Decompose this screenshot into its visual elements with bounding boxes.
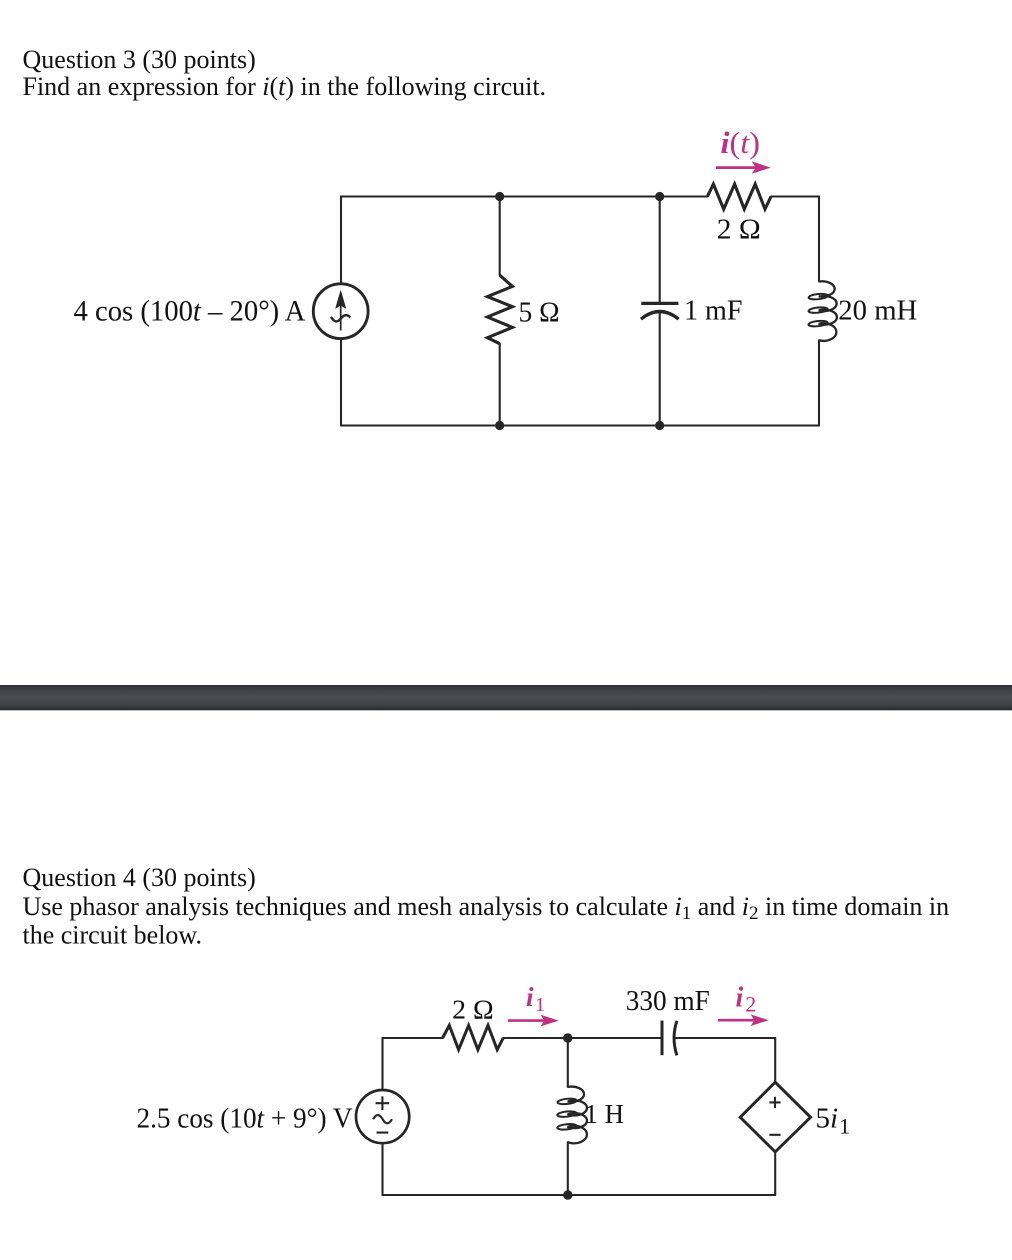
svg-text:1 mF: 1 mF bbox=[684, 296, 743, 327]
page separator bar bbox=[0, 685, 1012, 710]
current source IS1 4cos(100t-20) bbox=[313, 284, 368, 339]
arrow i(t) bbox=[716, 161, 771, 173]
wire top rail right segment bbox=[771, 195, 819, 197]
svg-text:the circuit below.: the circuit below. bbox=[23, 921, 203, 950]
CIRCUIT2 bbox=[383, 1038, 776, 1195]
wire capacitor branch leads bbox=[659, 197, 661, 426]
wire bottom rail bbox=[383, 1143, 776, 1195]
inductor L2 1H coil bbox=[557, 1087, 587, 1144]
CIRCUIT1 bbox=[341, 197, 819, 426]
svg-text:5 Ω: 5 Ω bbox=[519, 298, 560, 329]
capacitor C2 330mF series bbox=[662, 1021, 677, 1056]
resistor R2 2 ohm bbox=[707, 184, 771, 209]
QUESTION3-TEXT bbox=[23, 45, 547, 101]
node dot bottom A bbox=[495, 421, 504, 430]
dependent source D1 5i1 diamond bbox=[740, 1082, 810, 1152]
inductor L1 20mH coil bbox=[808, 281, 837, 341]
voltage source VS1 2.5cos(10t+9) bbox=[356, 1090, 409, 1143]
svg-text:i2: i2 bbox=[736, 983, 757, 1017]
node dot bottom mid bbox=[563, 1190, 572, 1199]
svg-text:2 Ω: 2 Ω bbox=[717, 215, 761, 246]
capacitor C1 1mF bbox=[641, 303, 679, 319]
node dot top B bbox=[655, 192, 664, 201]
svg-text:4 cos (100t – 20°) A: 4 cos (100t – 20°) A bbox=[74, 295, 306, 328]
svg-text:1 H: 1 H bbox=[585, 1099, 625, 1129]
wire top rail left segment bbox=[341, 197, 707, 284]
wire top rail left of resistor bbox=[383, 1038, 443, 1090]
wire bottom rail bbox=[341, 339, 819, 426]
svg-text:2 Ω: 2 Ω bbox=[452, 994, 494, 1025]
arrow i1 bbox=[508, 1015, 559, 1027]
resistor R3 2 ohm bbox=[443, 1025, 504, 1049]
wire right branch top bbox=[818, 197, 820, 282]
resistor R1 5 ohm bbox=[487, 275, 512, 344]
svg-text:Question 3 (30 points): Question 3 (30 points) bbox=[23, 45, 256, 74]
wire 5-ohm branch leads bbox=[499, 197, 501, 426]
svg-text:2.5 cos (10t + 9°) V: 2.5 cos (10t + 9°) V bbox=[137, 1103, 353, 1135]
node dot top A bbox=[495, 192, 504, 201]
svg-text:Question 4 (30 points): Question 4 (30 points) bbox=[23, 863, 256, 892]
node dot bottom B bbox=[655, 421, 664, 430]
wire top rail resistor to capacitor bbox=[503, 1037, 662, 1039]
node dot top mid bbox=[563, 1033, 572, 1042]
wire middle branch top bbox=[567, 1038, 569, 1087]
QUESTION4-TEXT bbox=[23, 863, 950, 950]
svg-text:Use phasor analysis techniques: Use phasor analysis techniques and mesh … bbox=[23, 892, 950, 924]
svg-text:5i1: 5i1 bbox=[816, 1103, 851, 1139]
svg-text:i(t): i(t) bbox=[721, 125, 761, 160]
wire middle branch bottom bbox=[567, 1142, 569, 1195]
arrow i2 bbox=[718, 1014, 769, 1026]
wire right branch bottom bbox=[818, 340, 820, 425]
svg-text:330 mF: 330 mF bbox=[626, 986, 710, 1017]
svg-text:i1: i1 bbox=[526, 982, 545, 1016]
wire right branch bottom bbox=[774, 1152, 776, 1195]
wire top rail capacitor to right corner bbox=[676, 1038, 776, 1082]
svg-text:20 mH: 20 mH bbox=[838, 296, 917, 327]
svg-text:Find an expression for i(t) in: Find an expression for i(t) in the follo… bbox=[23, 72, 547, 101]
